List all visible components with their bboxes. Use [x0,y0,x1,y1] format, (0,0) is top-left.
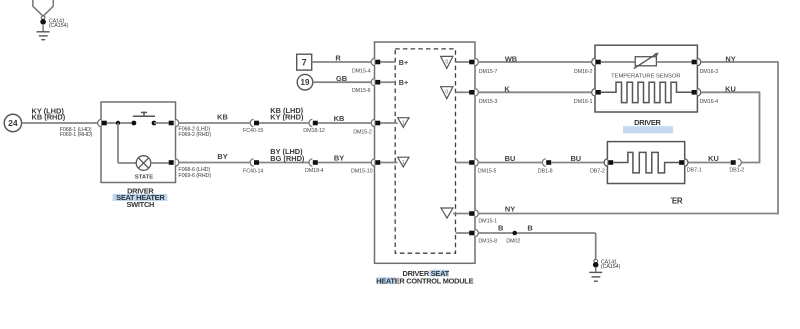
wire to pin DM15-5 [456,162,470,164]
svg-text:DB1-8: DB1-8 [538,168,553,174]
svg-text:0: 0 [445,90,448,96]
indicator lamp [136,156,151,171]
svg-text:KY (RHD): KY (RHD) [270,112,304,121]
svg-text:HEATER CONTROL MODULE: HEATER CONTROL MODULE [376,276,473,285]
svg-text:0: 0 [445,59,448,65]
svg-text:KB (RHD): KB (RHD) [32,113,66,122]
svg-text:DB7-1: DB7-1 [687,168,702,174]
wire DM16-4 to right, KU [701,91,761,93]
svg-text:DM02: DM02 [506,239,520,245]
svg-text:DM15-4: DM15-4 [352,69,371,75]
driver seat heater switch box [101,102,176,183]
pin square F068-1 [102,121,107,126]
svg-text:GB: GB [336,74,347,83]
svg-text:F069-1 (RHD): F069-1 (RHD) [60,132,93,138]
heater control module outer box [375,42,476,263]
heater control module inner dashed box [395,49,455,253]
wire DM15-5 to DB1-8, BU [478,162,546,164]
svg-text:K: K [504,85,510,94]
svg-text:24: 24 [8,118,18,128]
ground CA141 (CA154) bottom [589,272,602,281]
ground CA141 (CA154) top-left [37,32,50,40]
svg-text:DB7-2: DB7-2 [590,168,605,174]
svg-text:F069-6 (RHD): F069-6 (RHD) [178,173,211,179]
driver seat cushion heater box [607,142,684,184]
svg-text:KU: KU [725,85,736,94]
pin F068-1 arc on switch left edge [98,119,101,126]
svg-text:BG (RHD): BG (RHD) [270,154,305,163]
wire pin DM15-2 to input triangle [380,122,397,124]
svg-text:DM15-5: DM15-5 [478,168,497,174]
wire FC40-15 to DM18-12, KB(LHD)/KY(RHD) [259,122,310,124]
svg-text:DM16-1: DM16-1 [574,99,593,105]
title DRIVER SEAT HEATER CONTROL MODULE [376,269,473,286]
wire triangle to pin DM15-1 [453,213,470,215]
wire node24 to switch, KY(LHD)/KB(RHD) [22,122,98,124]
wire NY down right side [777,62,779,214]
svg-text:NY: NY [505,205,515,214]
svg-text:DM15-7: DM15-7 [479,69,498,75]
svg-text:DM16-2: DM16-2 [574,69,593,75]
eyelet terminal at CA141 top-left [40,16,46,25]
svg-text:DM15-1: DM15-1 [478,219,497,225]
svg-text:WB: WB [505,54,517,63]
pin DM16-1 [592,89,595,96]
heater element cushion [613,152,679,173]
svg-text:R: R [335,53,341,62]
svg-text:BU: BU [505,154,516,163]
pin DM15-3 [469,90,474,95]
junction to lamp branch [116,121,120,125]
svg-text:DM15-10: DM15-10 [351,169,373,175]
heater element driver seat [601,82,692,102]
wire pin DM15-4 to B+ [380,61,395,63]
pin DM15-10 [371,159,374,166]
inline connector FC40-14 [250,159,259,166]
wire pin DM15-10 to input triangle [380,162,397,164]
svg-text:KB: KB [334,114,345,123]
inline connector FC40-15 [250,119,259,126]
pin label F068-1 (LHD) / F069-1 (RHD) [60,127,93,138]
svg-text:NY: NY [725,54,735,63]
connector shroud top-left (cut off) [33,0,54,16]
svg-text:DB1-2: DB1-2 [729,168,744,174]
wire DM15-7 to DM16-2, WB [478,61,591,63]
temperature sensor (variable resistor) [634,53,659,69]
svg-text:FC40-15: FC40-15 [243,128,263,134]
wire FC40-14 to DM18-4, BY(LHD)/BG(RHD) [259,162,310,164]
svg-text:DM16-3: DM16-3 [700,69,719,75]
wire KU down [759,92,761,162]
pin square F068-6 [169,160,174,165]
wire DB1-2 to DB7-1, KU [688,162,731,164]
pin DM15-4 [371,58,374,65]
wire DM16-3 to right edge, NY [701,61,779,63]
highlight under DRIVER [623,126,673,133]
pin F068-2 arc on switch right edge [176,119,179,126]
wire label KB (LHD) / KY (RHD) [270,106,304,122]
svg-text:DM15-6: DM15-6 [352,88,371,94]
wire NY bottom run to DM15-1 [478,213,779,215]
svg-text:DM15-2: DM15-2 [353,129,372,135]
wire DM15-8 to ground, B [478,232,595,234]
wire contact to right pin [154,122,169,124]
svg-text:BY: BY [217,152,227,161]
pin square F068-2 [169,121,174,126]
pushbutton actuator bridge [133,112,155,116]
pushbutton contact dots [132,121,137,126]
svg-text:(CA154): (CA154) [49,23,69,29]
junction DM02 [512,231,517,236]
node 24 [4,114,21,131]
svg-text:19: 19 [301,78,310,87]
svg-text:KB: KB [217,113,228,122]
pin DB7-1 [679,160,684,165]
pin DM15-2 [371,119,374,126]
svg-text:BU: BU [570,154,581,163]
pin F068-6 arc on switch right edge [176,159,179,166]
svg-text:SWITCH: SWITCH [126,200,154,209]
input triangle KB [398,118,409,128]
wire stem to ground [595,267,597,272]
svg-text:B: B [498,224,503,233]
inline connector DB1-2 [731,159,742,166]
pin label F068-6 (LHD) / F069-6 (RHD) [178,167,211,179]
title DRIVER SEAT HEATER SWITCH [113,187,168,209]
output triangle NY [441,208,453,218]
pin label F068-2 (LHD) / F069-2 (RHD) [178,127,211,139]
wire to pin DM15-8 [456,232,470,234]
svg-text:B: B [527,224,532,233]
svg-text:DM15-8: DM15-8 [478,239,497,245]
pin DB7-2 [604,159,607,166]
wire B down to ground [595,233,597,260]
driver seat heater / temperature sensor box [595,45,697,112]
wire label BY (LHD) / BG (RHD) [270,147,305,163]
wire DM18-12 to module, KB [318,122,375,124]
wire label KY (LHD) / KB (RHD) [32,106,66,121]
wire lamp to right pin [151,162,169,164]
wire switch to FC40-14, BY [179,162,251,164]
output triangle K [441,87,453,99]
label CA141 (CA154) bottom [601,259,621,270]
wire lamp branch down [117,123,119,163]
svg-text:DM15-3: DM15-3 [479,99,498,105]
pin DM16-2 [592,58,595,65]
wire stem to ground top-left [42,24,44,32]
wire to pin DM15-7 [456,61,470,63]
svg-text:F069-2 (RHD): F069-2 (RHD) [178,132,211,138]
wire inside switch to contacts [107,122,134,124]
pin DM15-7 [469,60,474,65]
inline connector DB1-8 [542,159,551,166]
svg-text:DM18-4: DM18-4 [305,168,324,174]
inline connector DM18-12 [309,119,318,126]
svg-text:(CA154): (CA154) [601,264,621,270]
pin DM15-8 [469,231,474,236]
wire KU to DB1-2 [740,162,761,164]
wire node19 to DM15-6, GB [313,81,375,83]
svg-text:1: 1 [402,160,405,166]
svg-text:BY: BY [334,153,344,162]
svg-text:1: 1 [402,120,405,126]
pin DM15-5 [469,160,474,165]
node 7 [297,54,312,70]
wire to temperature sensor [601,61,635,63]
svg-text:STATE: STATE [135,175,154,181]
wire sensor to DM16-3 [656,61,691,63]
svg-text:B+: B+ [399,78,408,87]
pin DM16-3 [692,60,697,65]
wire DM15-3 to DM16-1, K [478,91,591,93]
wire DM18-4 to module, BY [318,162,375,164]
svg-text:DM16-4: DM16-4 [700,99,719,105]
wire pin DM15-6 to B+ [380,81,395,83]
node 19 [297,74,313,90]
wire node7 to DM15-4, R [312,61,375,63]
svg-text:DM18-12: DM18-12 [303,128,325,134]
svg-text:FC40-14: FC40-14 [243,169,263,175]
inline connector DM18-4 [309,159,318,166]
svg-text:DRIVER: DRIVER [634,118,661,127]
wire switch to FC40-15, KB [179,122,251,124]
input triangle BY [398,157,409,167]
svg-text:7: 7 [302,58,307,68]
eyelet terminal at CA141 bottom [593,259,599,267]
wire to pin DM15-3 [456,91,470,93]
wire DB1-8 to DB7-2, BU [551,162,604,164]
pin DM15-6 [371,79,374,86]
svg-text:B+: B+ [399,58,408,67]
svg-text:TEMPERATURE SENSOR: TEMPERATURE SENSOR [611,73,680,79]
pin DM16-4 [692,90,697,95]
pin DM15-1 [469,211,474,216]
label CA141 (CA154) top-left [49,18,69,29]
output triangle WB [441,56,453,68]
svg-text:KU: KU [708,154,719,163]
wire to lamp [118,162,136,164]
